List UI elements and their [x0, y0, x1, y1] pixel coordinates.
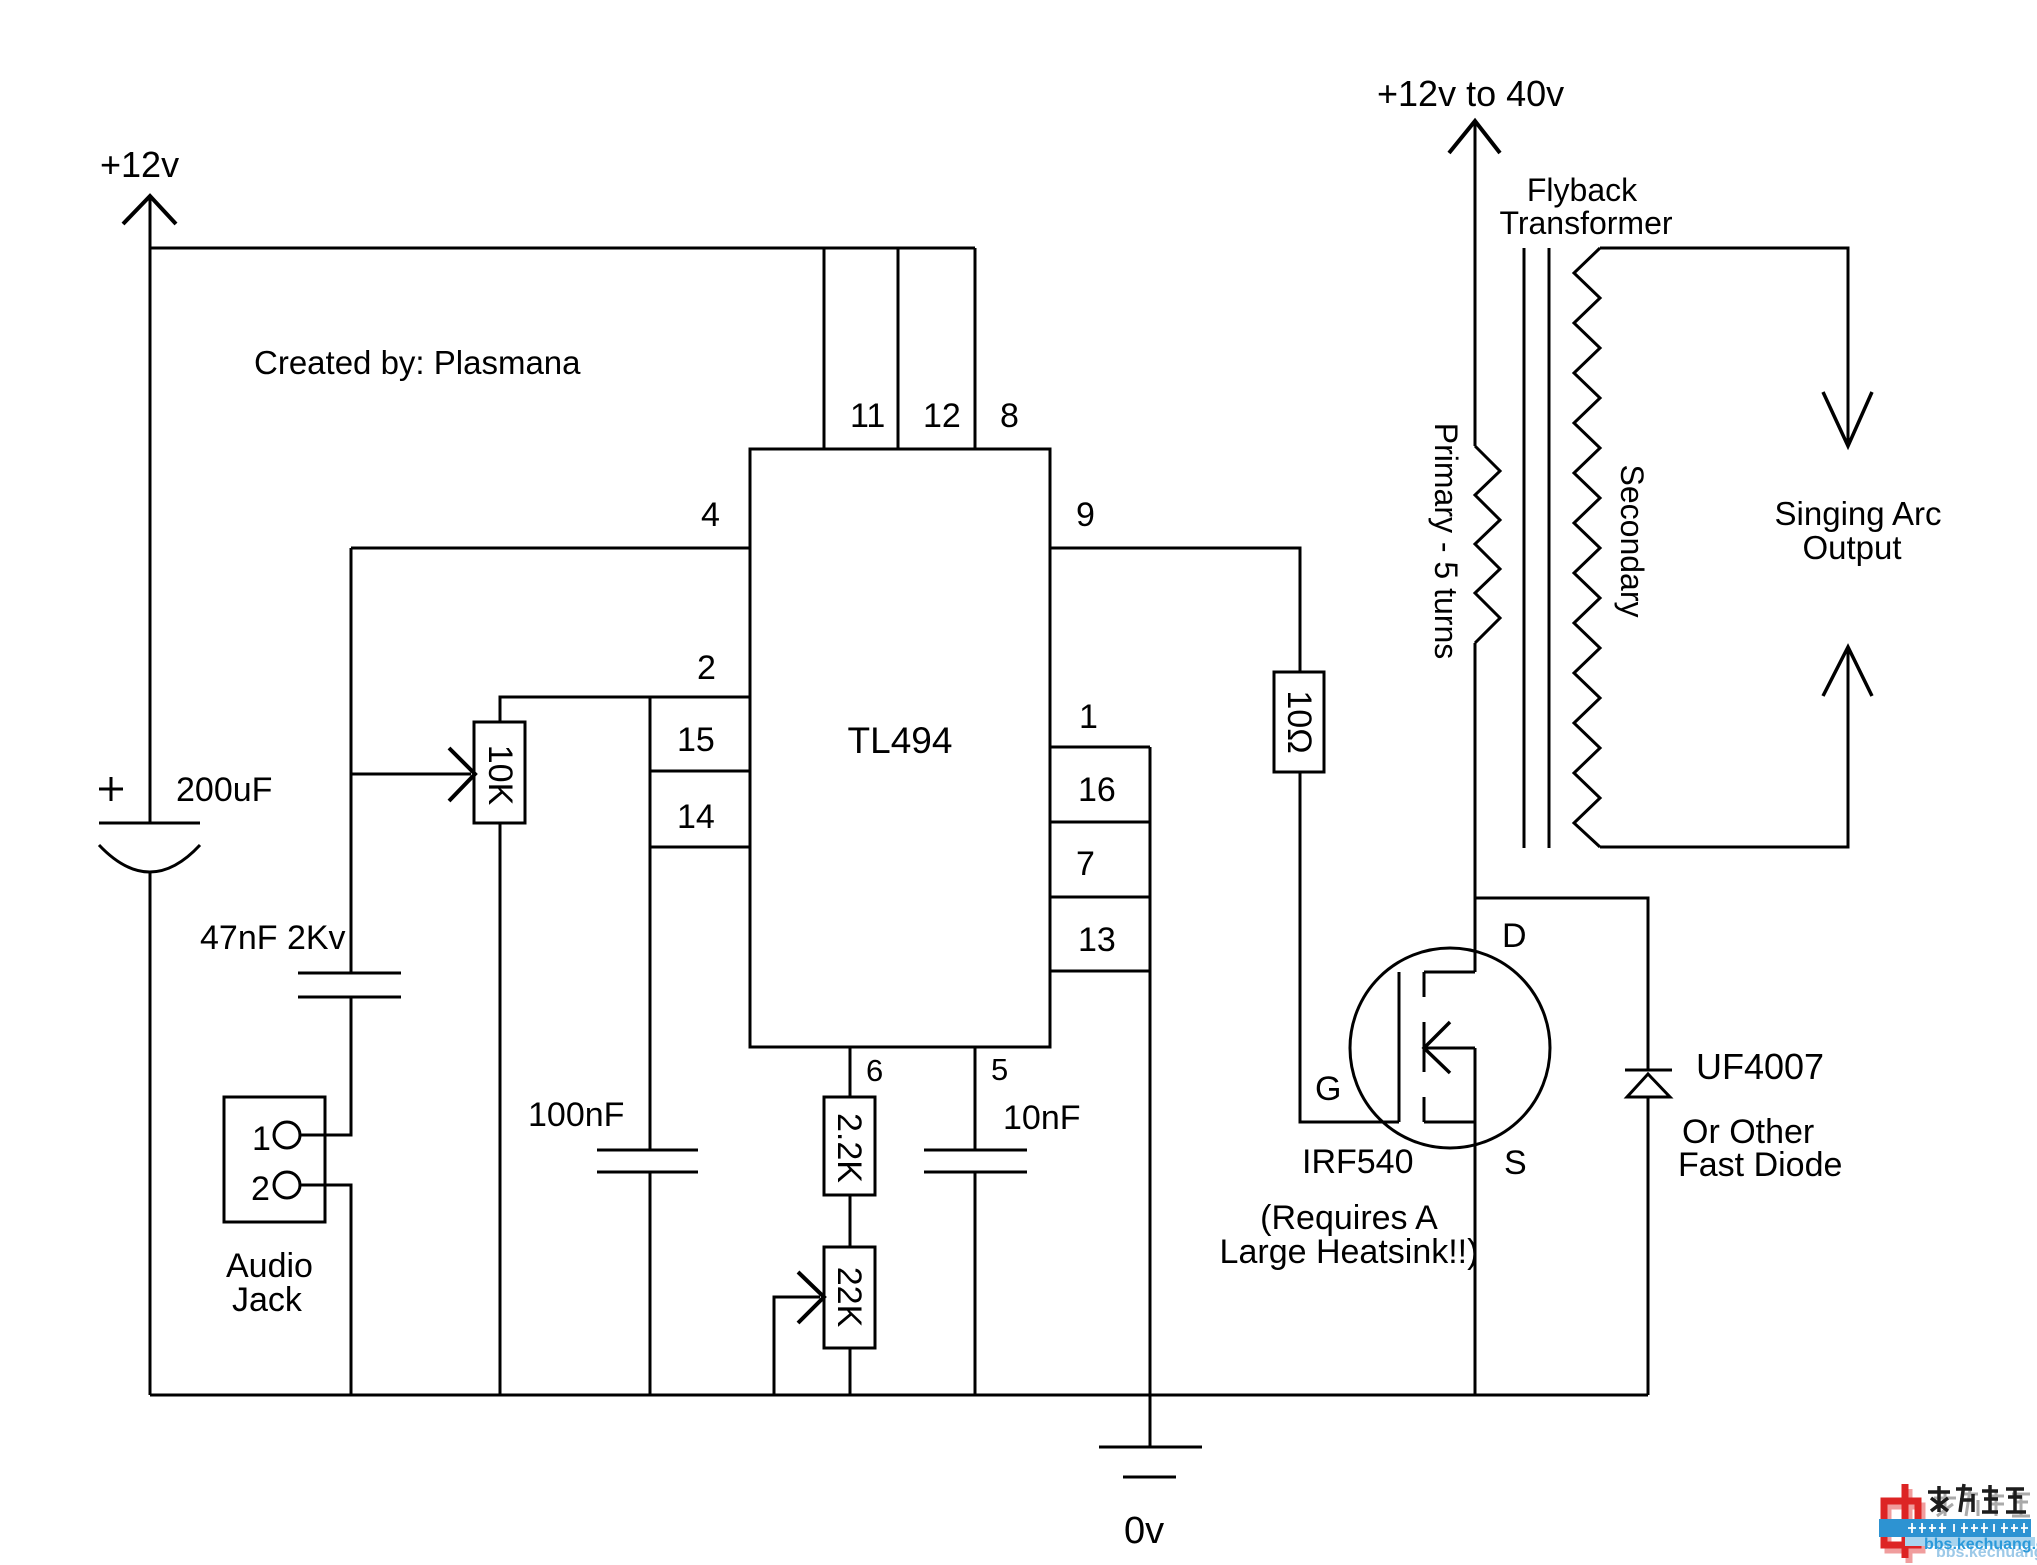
- svg-text:0v: 0v: [1124, 1510, 1164, 1552]
- wire pin 15: [650, 770, 750, 773]
- svg-text:+12v to 40v: +12v to 40v: [1377, 73, 1564, 114]
- wire diode to ground rail: [1647, 1097, 1650, 1395]
- wire left rail upper: [149, 196, 152, 823]
- output bottom arrowhead: [1823, 647, 1872, 696]
- wire output loop bottom: [1600, 647, 1848, 847]
- transistor Q1 gate bar: [1398, 972, 1401, 1122]
- wire pin 7 stub: [1050, 896, 1150, 899]
- capacitor C1 200uF top plate: [99, 822, 200, 825]
- node +12v to 40v arrow: [1449, 121, 1500, 153]
- svg-text:2: 2: [251, 1170, 270, 1208]
- potentiometer R1 10K body: [474, 722, 525, 823]
- wire drain to diode: [1475, 898, 1648, 1070]
- audio jack J1 pin 1 circle: [274, 1122, 300, 1148]
- svg-text:(Requires A: (Requires A: [1260, 1199, 1438, 1237]
- capacitor C4 10nF plates: [924, 1150, 1027, 1172]
- wire pin 9: [1050, 548, 1300, 672]
- wire pin 13 stub: [1050, 970, 1150, 973]
- watermark logo: [1884, 1484, 1922, 1563]
- wire pin 1 stub: [1050, 746, 1150, 749]
- transistor Q1 source elbow: [1424, 1121, 1475, 1124]
- wire source to ground rail: [1474, 1048, 1477, 1395]
- svg-text:22K: 22K: [830, 1267, 868, 1328]
- capacitor C3 100nF plates: [597, 1150, 698, 1172]
- wire pot bottom to ground rail: [499, 823, 502, 1395]
- svg-text:IRF540: IRF540: [1302, 1143, 1414, 1181]
- watermark site name glyphs: [1934, 1490, 2030, 1516]
- inductor L2 secondary winding: [1574, 248, 1600, 847]
- watermark url: [1924, 1536, 2037, 1561]
- wire pin 8: [974, 248, 977, 449]
- wire pins 2-15-14 vertical bus: [649, 697, 652, 1150]
- svg-text:47nF 2Kv: 47nF 2Kv: [200, 919, 346, 957]
- svg-text:Created by: Plasmana: Created by: Plasmana: [254, 344, 581, 381]
- wire 100nF bottom to ground rail: [649, 1172, 652, 1395]
- svg-text:10Ω: 10Ω: [1280, 690, 1318, 753]
- diode D1 UF4007 triangle: [1627, 1074, 1670, 1097]
- wire pot top to pin 2: [500, 697, 750, 722]
- svg-text:UF4007: UF4007: [1696, 1046, 1824, 1087]
- svg-text:8: 8: [1000, 397, 1019, 435]
- wire pin 11: [823, 248, 826, 449]
- svg-text:Transformer: Transformer: [1499, 205, 1672, 241]
- wire jack pin 2 to ground rail: [300, 1185, 351, 1395]
- wire wiper branch to 10K: [351, 773, 471, 776]
- svg-text:Primary - 5 turns: Primary - 5 turns: [1428, 423, 1464, 659]
- svg-text:6: 6: [866, 1053, 883, 1088]
- svg-text:Output: Output: [1802, 529, 1901, 566]
- ground symbol bar 2: [1123, 1476, 1176, 1479]
- svg-text:13: 13: [1078, 921, 1116, 959]
- wire 10 ohm to gate: [1300, 772, 1399, 1122]
- svg-text:Large Heatsink!!): Large Heatsink!!): [1220, 1233, 1479, 1271]
- svg-text:Secondary: Secondary: [1614, 465, 1650, 618]
- wire pin 6 stub: [849, 1047, 852, 1097]
- transformer T1 core line 1: [1523, 248, 1526, 848]
- svg-text:15: 15: [677, 721, 715, 759]
- svg-text:10nF: 10nF: [1003, 1099, 1081, 1137]
- svg-text:bbs.kechuang.org: bbs.kechuang.org: [1924, 1536, 2037, 1553]
- wire pin 5 stub: [974, 1047, 977, 1150]
- wire pin 12: [897, 248, 900, 449]
- wire pins 1-16-7-13 bus to ground: [1149, 747, 1152, 1446]
- capacitor C1 200uF curved plate: [99, 845, 200, 872]
- inductor L1 primary winding: [1475, 446, 1500, 643]
- wire primary top: [1474, 121, 1477, 446]
- wire pin 16 stub: [1050, 821, 1150, 824]
- transistor Q1 IRF540 circle: [1350, 948, 1550, 1148]
- svg-text:7: 7: [1076, 845, 1095, 883]
- svg-text:Flyback: Flyback: [1527, 172, 1638, 208]
- potentiometer R3 22K wiper arrowhead: [798, 1272, 824, 1323]
- svg-text:TL494: TL494: [848, 720, 953, 761]
- transistor Q1 drain elbow: [1424, 971, 1475, 974]
- diode D1 UF4007 cathode bar: [1625, 1069, 1672, 1072]
- svg-text:200uF: 200uF: [176, 771, 272, 809]
- svg-text:Fast Diode: Fast Diode: [1678, 1146, 1842, 1184]
- svg-text:Jack: Jack: [232, 1281, 303, 1319]
- output top arrowhead: [1823, 392, 1872, 446]
- potentiometer R3 22K wiper wire: [774, 1297, 820, 1395]
- svg-text:12: 12: [923, 397, 961, 435]
- svg-text:100nF: 100nF: [528, 1096, 624, 1134]
- wire primary bottom to drain: [1474, 643, 1477, 972]
- svg-text:1: 1: [252, 1120, 271, 1158]
- wire vertical input node upper: [350, 548, 353, 973]
- transistor Q1 body branch: [1424, 1047, 1475, 1050]
- node +12v arrow: [123, 196, 176, 224]
- transistor Q1 body arrowhead: [1424, 1022, 1450, 1073]
- capacitor C2 47nF plates: [298, 973, 401, 997]
- svg-text:S: S: [1504, 1144, 1527, 1182]
- potentiometer R1 10K wiper arrowhead: [449, 748, 475, 801]
- wire pin 14: [650, 846, 750, 849]
- wire 47nF bottom to jack pin 1: [300, 997, 351, 1135]
- wire pin 4: [351, 547, 750, 550]
- watermark blue banner: [1879, 1519, 2035, 1546]
- svg-text:11: 11: [850, 397, 885, 435]
- svg-text:Audio: Audio: [226, 1247, 313, 1285]
- resistor R2 2.2K body: [824, 1097, 875, 1195]
- svg-text:9: 9: [1076, 496, 1095, 534]
- IC U1 TL494 body: [750, 449, 1050, 1047]
- wire bottom ground rail: [150, 1394, 1648, 1397]
- potentiometer R3 22K body: [824, 1247, 875, 1348]
- wire top rail: [150, 247, 975, 250]
- wire 10nF bottom to ground rail: [974, 1172, 977, 1395]
- svg-text:2.2K: 2.2K: [830, 1113, 868, 1183]
- wire 2.2K to 22K: [849, 1195, 852, 1247]
- svg-text:14: 14: [677, 798, 715, 836]
- capacitor C1 200uF plus sign: [99, 777, 123, 801]
- svg-text:D: D: [1502, 917, 1527, 955]
- transistor Q1 channel dashes: [1423, 972, 1426, 1122]
- svg-text:1: 1: [1079, 698, 1098, 736]
- svg-text:2: 2: [697, 649, 716, 687]
- ground symbol bar 1: [1099, 1446, 1202, 1449]
- wire output loop top: [1600, 248, 1848, 446]
- svg-text:16: 16: [1078, 771, 1116, 809]
- wire left rail lower: [149, 872, 152, 1395]
- svg-text:5: 5: [991, 1052, 1008, 1087]
- svg-text:4: 4: [701, 496, 720, 534]
- svg-text:G: G: [1315, 1070, 1341, 1108]
- audio jack J1 body: [224, 1097, 325, 1222]
- resistor R4 10 ohm body: [1274, 672, 1324, 772]
- audio jack J1 pin 2 circle: [274, 1172, 300, 1198]
- svg-text:+12v: +12v: [100, 144, 179, 185]
- transformer T1 core line 2: [1548, 248, 1551, 848]
- wire 22K bottom to ground rail: [849, 1348, 852, 1395]
- svg-text:Singing Arc: Singing Arc: [1775, 495, 1942, 532]
- svg-text:10K: 10K: [481, 745, 519, 806]
